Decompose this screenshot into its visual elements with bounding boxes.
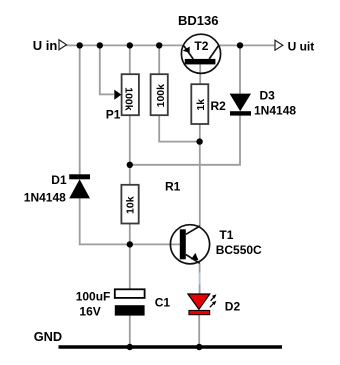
connector U uit <box>275 40 283 50</box>
svg-text:10k: 10k <box>124 196 136 214</box>
diode D1 <box>69 174 90 198</box>
wire 100k bottom L <box>159 115 199 141</box>
node dot top x80 <box>77 42 83 48</box>
wire R2 bottom to T1 collector <box>199 124 201 226</box>
wire P1 wiper branch <box>100 45 114 94</box>
svg-text:1N4148: 1N4148 <box>254 103 296 117</box>
node dot top x240 <box>237 42 243 48</box>
wire top rail left <box>66 44 184 46</box>
ground rail <box>59 345 283 348</box>
potentiometer P1 <box>122 74 139 115</box>
svg-text:U uit: U uit <box>288 40 315 54</box>
wire R1 bottom to C1 <box>129 223 131 289</box>
capacitor C1 <box>115 289 145 315</box>
wire D2 bottom to GND <box>198 315 200 347</box>
svg-text:1N4148: 1N4148 <box>24 190 66 204</box>
svg-text:BC550C: BC550C <box>216 243 262 257</box>
wire D1 bottom <box>80 198 180 244</box>
svg-text:R2: R2 <box>211 99 227 113</box>
node dot base rail <box>127 241 133 247</box>
P1 wiper arrow <box>114 90 121 100</box>
svg-text:T2: T2 <box>194 39 208 53</box>
wire T1 emitter down <box>199 263 201 272</box>
svg-text:C1: C1 <box>155 296 171 310</box>
wire 100k top <box>158 45 160 74</box>
wire T2 base to R2 <box>199 64 201 84</box>
node dot GND C1 <box>127 344 133 350</box>
svg-text:1k: 1k <box>195 99 207 111</box>
wire P1 top <box>129 45 131 74</box>
diode D3 <box>230 94 251 116</box>
svg-text:D2: D2 <box>225 300 241 314</box>
svg-text:100k: 100k <box>155 84 167 108</box>
svg-text:16V: 16V <box>79 305 100 319</box>
node dot top x130 <box>127 42 133 48</box>
wire top rail right <box>218 44 275 46</box>
svg-text:U in: U in <box>33 38 58 53</box>
wire to D2 top <box>199 285 201 295</box>
resistor 100k <box>151 74 168 115</box>
node dot GND D2 <box>196 344 202 350</box>
svg-text:D1: D1 <box>51 173 67 187</box>
connector U in <box>59 40 67 50</box>
svg-text:R1: R1 <box>165 180 181 194</box>
wire D1 branch down <box>79 45 81 174</box>
svg-text:BD136: BD136 <box>178 13 218 28</box>
transistor T1 BC550C <box>170 225 209 264</box>
transistor T2 BD136 <box>181 34 220 73</box>
wire blue segment <box>199 273 201 285</box>
svg-text:P1: P1 <box>106 108 121 122</box>
node dot R2 bottom <box>196 138 202 144</box>
svg-text:100uF: 100uF <box>76 289 111 303</box>
wire C1 bottom to GND <box>129 316 131 348</box>
LED D2 <box>188 294 217 315</box>
wire node rail y165 <box>130 115 240 164</box>
resistor R1 <box>121 185 138 224</box>
svg-text:T1: T1 <box>219 228 233 242</box>
svg-text:D3: D3 <box>260 89 276 103</box>
svg-text:GND: GND <box>34 329 62 344</box>
svg-text:100k: 100k <box>122 87 134 111</box>
node dot top x159 <box>156 42 162 48</box>
resistor R2 <box>191 84 208 124</box>
node dot top x100 <box>97 42 103 48</box>
node dot R1 top rail <box>127 162 133 168</box>
wire D3 top <box>239 45 241 93</box>
wire P1 bottom to R1 <box>129 115 131 185</box>
